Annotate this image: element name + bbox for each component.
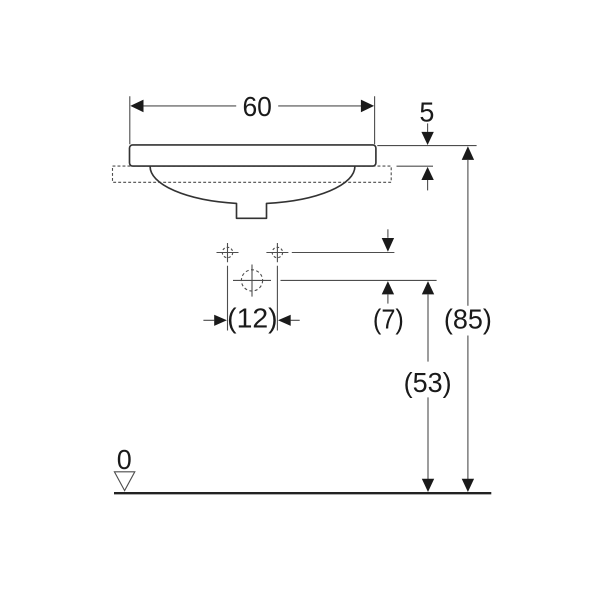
svg-text:(7): (7): [373, 304, 404, 335]
svg-text:(53): (53): [404, 367, 452, 398]
svg-text:0: 0: [117, 444, 132, 475]
svg-text:(12): (12): [227, 303, 278, 334]
svg-text:(85): (85): [444, 304, 492, 335]
svg-text:60: 60: [242, 91, 272, 122]
svg-text:5: 5: [419, 96, 434, 127]
